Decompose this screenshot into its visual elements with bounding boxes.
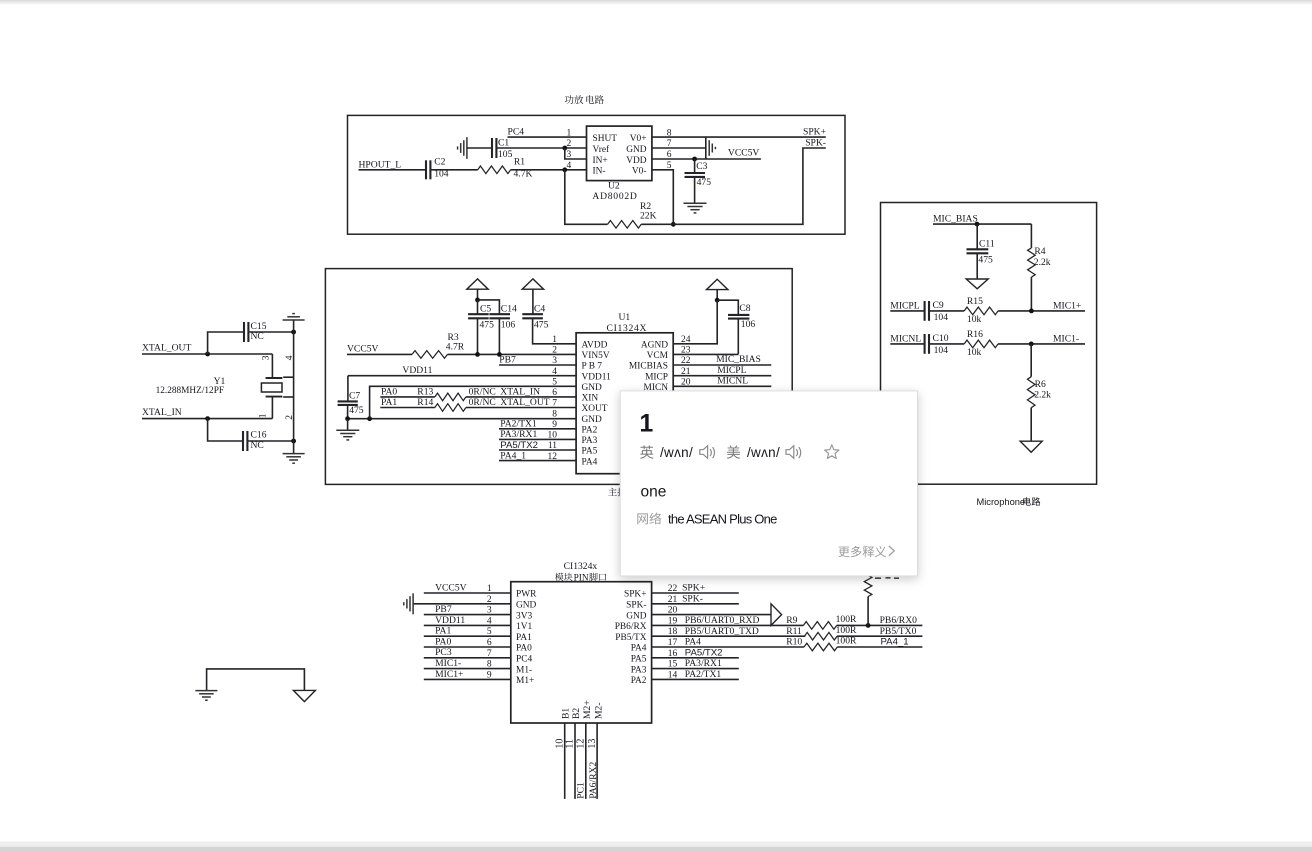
net label PA3/RX1 module (685, 658, 722, 669)
vcc arrow 2 (707, 279, 728, 300)
junction C7 gnd (345, 416, 350, 421)
wire PA1 to R14 (380, 407, 435, 409)
svg-text:R11: R11 (786, 626, 802, 637)
wire gnd row (348, 418, 576, 420)
top window edge gradient (0, 0, 1312, 5)
svg-text:C14: C14 (501, 304, 517, 315)
junction MIC1+ (1029, 309, 1034, 314)
net label MIC1+ (1053, 300, 1081, 311)
svg-text:R10: R10 (786, 637, 802, 648)
net label SPK- (805, 137, 826, 148)
svg-text:PB6/RX: PB6/RX (615, 622, 647, 632)
resistor R16 (964, 329, 998, 358)
net label VCC5V amp (728, 148, 760, 159)
junction gnd branch (367, 416, 372, 421)
svg-text:PA5: PA5 (631, 655, 647, 665)
wire SPK- right (652, 603, 739, 605)
crystal pin number 1 (259, 413, 269, 418)
vcc arrow 1 (467, 279, 488, 300)
svg-text:0R/NC: 0R/NC (469, 397, 496, 408)
amp circuit frame (348, 115, 846, 234)
svg-text:3V3: 3V3 (516, 611, 532, 621)
crystal pin number 3 (261, 355, 271, 360)
wire R1 to U2 IN- (511, 169, 587, 171)
resistor R10 (786, 636, 857, 651)
svg-text:MIC_BIAS: MIC_BIAS (933, 213, 978, 224)
U1 left pin numbers (548, 335, 558, 462)
svg-text:475: 475 (697, 177, 712, 188)
wire arrow2 to C8 (717, 300, 738, 315)
wire PA5 to U1 (499, 449, 576, 451)
wire PB7 to U1 (499, 364, 576, 366)
svg-text:R4: R4 (1034, 246, 1045, 257)
wire C10 to R16 (929, 343, 964, 345)
ground right of U2 (709, 140, 715, 156)
svg-text:R14: R14 (417, 397, 433, 408)
wire MICP (673, 375, 771, 377)
net label PA2/TX1 module (685, 669, 722, 680)
svg-text:PA1: PA1 (381, 397, 397, 408)
wire U2 V0- down (652, 170, 673, 225)
crystal pin number 4 (285, 355, 295, 360)
svg-text:VDD11: VDD11 (402, 365, 432, 376)
net label SPK- module (682, 593, 703, 604)
net label PA4_1 main (500, 451, 526, 462)
svg-text:105: 105 (498, 149, 513, 160)
svg-text:R1: R1 (514, 157, 525, 168)
net label PB7 (499, 354, 516, 365)
svg-text:GND: GND (582, 383, 603, 393)
capacitor C3 (685, 159, 712, 203)
svg-text:R15: R15 (967, 296, 983, 307)
capacitor C7 (338, 391, 364, 419)
svg-text:4: 4 (567, 161, 572, 171)
svg-text:/wʌn/: /wʌn/ (660, 445, 693, 460)
net label VDD11 (402, 365, 432, 376)
resistor R2 (608, 201, 657, 228)
wire pin17 to R10 (652, 646, 804, 648)
svg-text:PC1: PC1 (576, 782, 587, 799)
module bottom pin wire 13 (596, 723, 598, 799)
svg-text:AVDD: AVDD (582, 341, 608, 351)
capacitor C11 (967, 224, 995, 278)
wire arrow1 to C14 (478, 300, 500, 314)
junction feedback node (671, 222, 676, 227)
resistor R14 (417, 397, 466, 411)
svg-text:1: 1 (567, 128, 572, 138)
svg-text:12: 12 (576, 739, 587, 749)
wire vertical pin8-pin6 (705, 137, 707, 159)
ground triangle tie (293, 690, 315, 701)
svg-text:475: 475 (480, 319, 495, 330)
crystal Y1 (156, 354, 283, 419)
wire MIC_BIAS (933, 223, 1031, 225)
module bottom pin wire 10 (564, 723, 566, 799)
svg-text:SPK-: SPK- (626, 601, 646, 611)
capacitor C14 (489, 304, 517, 355)
module bottom pin wire 11 (574, 723, 576, 799)
svg-text:R16: R16 (967, 329, 983, 340)
U1 left pin names (582, 341, 612, 468)
svg-text:R13: R13 (417, 387, 433, 398)
svg-text:SPK-: SPK- (682, 593, 703, 604)
svg-text:M1-: M1- (516, 665, 532, 675)
svg-text:CI1324x: CI1324x (564, 561, 598, 572)
module right pin numbers (668, 584, 678, 680)
wire R14 to U1 XOUT (466, 407, 576, 409)
svg-text:C3: C3 (696, 161, 707, 172)
svg-text:VDD11: VDD11 (435, 615, 465, 626)
wire R9 to PB6/RX0 (837, 624, 923, 626)
svg-text:VDD11: VDD11 (582, 372, 612, 382)
wire feedback left (565, 170, 608, 225)
svg-text:C9: C9 (933, 300, 944, 311)
U1 right pin names (629, 341, 669, 394)
svg-text:VCC5V: VCC5V (347, 344, 379, 355)
svg-text:SPK+: SPK+ (682, 583, 705, 594)
junction MIC1- (1029, 342, 1034, 347)
wire C9 to R15 (929, 310, 964, 312)
ground under C3 (684, 203, 707, 213)
svg-text:104: 104 (934, 312, 949, 323)
svg-text:PWR: PWR (516, 590, 537, 600)
svg-text:PA6/RX2: PA6/RX2 (588, 762, 599, 799)
ground triangle C11 (966, 279, 988, 289)
net label MIC_BIAS u1 (716, 354, 761, 365)
ground under C7 (336, 419, 359, 440)
svg-text:XTAL_IN: XTAL_IN (500, 387, 540, 398)
U2 left pin numbers (567, 128, 572, 171)
module body (511, 582, 652, 723)
wire pin19 to R9 (652, 624, 804, 626)
svg-text:PA2/TX1: PA2/TX1 (500, 419, 537, 430)
vcc arrow 3 (522, 279, 543, 314)
wire C2 to R1 (430, 169, 477, 171)
net label PA3/RX1 (500, 429, 537, 440)
resistor R9 (786, 614, 857, 629)
svg-text:475: 475 (349, 405, 364, 416)
svg-text:C8: C8 (739, 303, 750, 314)
net label PB6/RX0 (880, 615, 918, 626)
ground at C1 (458, 137, 467, 159)
svg-text:PB5/TX0: PB5/TX0 (880, 626, 917, 637)
wire R13 to U1 XIN (466, 396, 576, 398)
svg-text:106: 106 (741, 319, 756, 330)
net label MICPL u1 (717, 365, 746, 376)
module left wires (413, 593, 511, 679)
wire pin16 (652, 657, 739, 659)
resistor R15 (964, 296, 998, 325)
svg-text:AGND: AGND (641, 341, 668, 351)
ground earth tie (195, 691, 217, 701)
svg-text:MICNL: MICNL (890, 333, 921, 344)
net label PA6/RX2 rotated (588, 762, 599, 799)
ground bottom xtal (283, 441, 305, 463)
svg-text:GND: GND (626, 611, 647, 621)
svg-text:P B 7: P B 7 (582, 362, 603, 372)
wire R16 to MIC1- (998, 343, 1085, 345)
svg-text:C4: C4 (534, 304, 545, 315)
net label HPOUT_L (359, 159, 402, 170)
wire up to C15 (208, 332, 244, 354)
svg-text:MIC1-: MIC1- (1053, 333, 1079, 344)
svg-text:SPK+: SPK+ (624, 590, 647, 600)
junction C14 vcc (497, 352, 502, 357)
svg-text:PB7: PB7 (435, 604, 452, 615)
svg-text:1V1: 1V1 (516, 622, 532, 632)
net label SPK+ module (682, 583, 705, 594)
module left net labels (435, 582, 467, 679)
main circuit frame (325, 269, 792, 485)
wire C8 to VCM (673, 353, 738, 355)
capacitor C15 (244, 321, 267, 342)
wire pin18 to R11 (652, 635, 806, 637)
svg-text:V0-: V0- (632, 167, 647, 177)
svg-text:PA0: PA0 (516, 644, 532, 654)
svg-text:PA3/RX1: PA3/RX1 (500, 429, 537, 440)
svg-text:PA0: PA0 (381, 387, 397, 398)
capacitor C10 (925, 333, 949, 356)
svg-text:C11: C11 (979, 239, 995, 250)
svg-text:PA3: PA3 (582, 436, 598, 446)
wire R15 to MIC1+ (998, 310, 1085, 312)
wire MICPL to C9 (890, 310, 924, 312)
svg-text:1: 1 (639, 409, 653, 437)
capacitor C5 (468, 300, 494, 355)
svg-text:475: 475 (534, 319, 549, 330)
svg-text:100R: 100R (836, 625, 857, 636)
svg-text:Vref: Vref (593, 144, 610, 155)
wire R2 to SPK- (641, 148, 826, 224)
wire VDD11 down to C7 (347, 376, 349, 402)
svg-text:PA5/TX2: PA5/TX2 (685, 647, 723, 658)
junction pin4 node (562, 167, 567, 172)
net label PA1 (381, 397, 397, 408)
net label PA2/TX1 (500, 419, 537, 430)
svg-text:GND: GND (626, 145, 647, 155)
junction pin2 node (562, 146, 567, 151)
svg-text:3: 3 (261, 355, 271, 360)
svg-text:PB5/TX: PB5/TX (615, 633, 646, 643)
svg-text:MICP: MICP (645, 372, 668, 382)
svg-text:PA1: PA1 (435, 626, 451, 637)
svg-text:XIN: XIN (582, 394, 599, 404)
svg-text:AD8002D: AD8002D (592, 191, 637, 202)
svg-text:U2: U2 (608, 181, 620, 192)
capacitor C2 (426, 157, 449, 180)
svg-text:MICNL: MICNL (717, 376, 748, 387)
module left pin numbers (487, 584, 492, 680)
svg-text:100R: 100R (836, 614, 857, 625)
wire PA0 to R13 (380, 396, 435, 398)
svg-text:U1: U1 (619, 312, 631, 323)
wire ground to C1 (467, 147, 492, 149)
junction C3 node (692, 157, 697, 162)
module left pin names (516, 590, 537, 686)
wire XTAL_IN (142, 418, 272, 420)
svg-text:M2-: M2- (593, 702, 604, 719)
svg-text:100R: 100R (836, 636, 857, 647)
svg-text:C10: C10 (933, 333, 949, 344)
wire XTAL_OUT (142, 353, 272, 355)
junction C5 vcc (475, 352, 480, 357)
ground triangle R6 (1020, 441, 1042, 452)
net label MIC1- (1053, 333, 1079, 344)
wire AGND up (673, 300, 717, 344)
svg-text:VCC5V: VCC5V (435, 582, 467, 593)
svg-text:PA3/RX1: PA3/RX1 (685, 658, 722, 669)
svg-text:0R/NC: 0R/NC (469, 387, 496, 398)
svg-text:MIC1+: MIC1+ (1053, 300, 1081, 311)
resistor R6 (1027, 344, 1051, 441)
label 0R/NC XTAL_IN (469, 387, 540, 398)
net label SPK+ (803, 126, 826, 137)
resistor R11 (786, 625, 857, 640)
svg-text:PA4: PA4 (631, 644, 647, 654)
dictionary popup (620, 391, 917, 576)
svg-text:SPK-: SPK- (805, 137, 826, 148)
net label PB5/TX0 (880, 626, 917, 637)
svg-text:PC3: PC3 (435, 647, 452, 658)
wire PA4 to U1 (499, 460, 576, 462)
svg-text:106: 106 (501, 319, 516, 330)
wire MICNL to C10 (890, 343, 924, 345)
svg-text:PB5/UART0_TXD: PB5/UART0_TXD (685, 626, 759, 637)
svg-text:4.7R: 4.7R (446, 342, 465, 353)
ground top inverted (283, 314, 305, 332)
caption 主控 (608, 488, 645, 497)
junction MIC_BIAS (975, 222, 980, 227)
mic circuit frame (881, 203, 1097, 485)
svg-text:1: 1 (259, 413, 269, 418)
svg-text:VCM: VCM (647, 351, 669, 361)
net label PA4_1 (881, 636, 909, 647)
svg-text:SPK+: SPK+ (803, 126, 826, 137)
wire C1 to U2 Vref (496, 147, 586, 149)
svg-text:VIN5V: VIN5V (582, 351, 610, 361)
net label XTAL_OUT (142, 342, 191, 353)
wire U2 V0+ to SPK+ (652, 136, 826, 138)
svg-text:the ASEAN Plus One: the ASEAN Plus One (668, 512, 777, 527)
svg-text:M2+: M2+ (582, 700, 593, 719)
wire HPOUT_L to C2 (359, 169, 427, 171)
U2 left pin names (593, 134, 618, 177)
svg-text:8: 8 (552, 409, 557, 419)
svg-text:/wʌn/: /wʌn/ (747, 445, 780, 460)
svg-text:R9: R9 (786, 615, 797, 626)
bottom window band light (0, 842, 1312, 847)
svg-text:13: 13 (587, 739, 598, 749)
capacitor C4 (522, 304, 576, 344)
svg-text:M1+: M1+ (516, 676, 534, 686)
junction R9 node (866, 623, 871, 628)
svg-text:V0+: V0+ (630, 134, 647, 144)
wire PA2 to U1 (499, 428, 576, 430)
wire C15 to gnd node (248, 331, 293, 333)
wire PA3 to U1 (499, 438, 576, 440)
module bottom pin wire 12 (585, 723, 587, 799)
junction arrow2 (715, 298, 720, 303)
net label MICPL (890, 300, 919, 311)
U2 right pin numbers (667, 128, 672, 171)
net label PA5/TX2 main (500, 440, 538, 451)
caption Microphone (977, 497, 1041, 507)
svg-text:VCC5V: VCC5V (728, 148, 760, 159)
U2 right pin names (626, 134, 647, 177)
wire MICBIAS (673, 364, 771, 366)
section title 功放电路 (565, 95, 604, 104)
svg-text:PA5: PA5 (582, 447, 598, 457)
wire MICN (673, 385, 771, 387)
net label XTAL_IN (142, 407, 182, 418)
capacitor C1 (492, 137, 513, 160)
wire pin15 (652, 668, 739, 670)
svg-text:GND: GND (582, 415, 603, 425)
svg-text:PA0: PA0 (435, 636, 451, 647)
mcu U1 body (576, 312, 673, 474)
net label PA0 (381, 387, 397, 398)
module title (555, 561, 606, 583)
svg-text:PB7: PB7 (499, 354, 516, 365)
wire U2 GND to ground (652, 147, 706, 149)
op-amp U2 body (587, 126, 652, 202)
module bottom pin names (561, 700, 605, 719)
svg-text:XTAL_IN: XTAL_IN (142, 407, 182, 418)
svg-text:MIC1+: MIC1+ (435, 669, 463, 680)
svg-text:MIC1-: MIC1- (435, 658, 461, 669)
svg-text:3: 3 (567, 150, 572, 160)
wire R10 to PA4_1 (837, 646, 922, 648)
net label MIC_BIAS mic (933, 213, 978, 224)
svg-text:Microphone: Microphone (977, 497, 1026, 507)
net label PC4 (508, 126, 525, 137)
resistor R hidden vertical (864, 571, 872, 625)
svg-text:one: one (641, 484, 667, 501)
wire pin14 (652, 678, 739, 680)
resistor R4 (1028, 224, 1051, 311)
module bottom pin numbers (554, 739, 598, 749)
svg-text:PB6/RX0: PB6/RX0 (880, 615, 918, 626)
net label MICNL u1 (717, 376, 748, 387)
svg-text:HPOUT_L: HPOUT_L (359, 159, 402, 170)
resistor R1 (478, 157, 533, 180)
svg-text:475: 475 (978, 254, 993, 265)
svg-text:SHUT: SHUT (593, 134, 618, 144)
svg-text:PA2: PA2 (582, 426, 598, 436)
svg-text:R6: R6 (1035, 379, 1046, 390)
net label MICNL (890, 333, 921, 344)
svg-text:CI1324X: CI1324X (607, 323, 648, 334)
capacitor C16 (243, 430, 267, 451)
svg-text:GND: GND (516, 601, 537, 611)
svg-text:PC4: PC4 (508, 126, 525, 137)
svg-text:10k: 10k (967, 314, 982, 325)
wire crystal case vertical (293, 332, 295, 441)
wire ground tie (207, 669, 305, 691)
junction XTAL_IN node (205, 416, 210, 421)
svg-text:C7: C7 (349, 391, 360, 402)
svg-text:C1: C1 (498, 137, 509, 148)
svg-text:PA2/TX1: PA2/TX1 (685, 669, 722, 680)
crystal case pin ticks (283, 377, 293, 397)
arrow GND20 (771, 604, 782, 626)
net label PC1 rotated (576, 782, 587, 799)
svg-text:104: 104 (934, 345, 949, 356)
svg-text:B2: B2 (571, 708, 582, 719)
bottom window band dark (0, 847, 1312, 851)
svg-text:PC4: PC4 (516, 655, 532, 665)
wire pin2 to pin3 (565, 148, 587, 159)
